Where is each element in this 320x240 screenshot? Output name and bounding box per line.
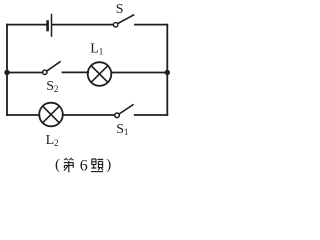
caption character Di (第) drawn as strokes: [64, 158, 74, 173]
svg-text:L: L: [90, 42, 99, 57]
wire right vertical: [166, 25, 168, 115]
switch S lever: [118, 15, 134, 24]
svg-text:1: 1: [124, 127, 128, 137]
lamp L2 cross: [43, 106, 60, 123]
wire S2 to lamp L1: [63, 71, 89, 73]
wire switch S to top right corner: [135, 24, 167, 26]
wire left vertical: [6, 25, 8, 115]
node junction dot right: [165, 70, 170, 75]
wire middle row left: [7, 72, 43, 74]
battery cell: long thin plate (positive): [51, 15, 53, 37]
caption character Ti (题) drawn as strokes: [91, 159, 103, 172]
svg-text:1: 1: [99, 47, 104, 57]
battery cell: short thick plate (negative): [46, 22, 49, 31]
svg-text:6: 6: [80, 157, 88, 174]
svg-text:S: S: [116, 122, 124, 137]
lamp L2 circle: [39, 103, 63, 127]
switch S1 lever: [119, 105, 133, 114]
lamp L1 circle: [88, 62, 112, 86]
svg-text:2: 2: [54, 84, 59, 94]
wire lamp L1 to right junction: [111, 72, 167, 74]
svg-text:S: S: [116, 2, 124, 17]
svg-text:): ): [106, 157, 111, 173]
switch S2 pivot circle: [43, 70, 47, 74]
switch S pivot circle: [113, 23, 117, 27]
switch S1 pivot circle: [115, 113, 120, 118]
wire S1 to bottom right corner: [135, 114, 168, 116]
svg-text:(: (: [55, 157, 60, 173]
wire battery to switch S: [52, 24, 113, 26]
node junction dot left: [4, 70, 9, 75]
wire lamp L2 to switch S1: [63, 114, 115, 116]
lamp L1 cross: [91, 66, 108, 83]
switch S2 lever: [47, 62, 60, 71]
wire top left to battery: [7, 24, 47, 26]
svg-text:2: 2: [54, 138, 59, 148]
svg-text:S: S: [46, 79, 54, 94]
wire bottom row left: [7, 114, 39, 116]
svg-text:L: L: [46, 133, 55, 148]
